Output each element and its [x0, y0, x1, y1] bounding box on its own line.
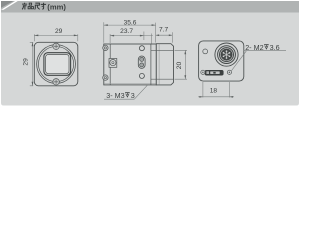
- dimension 18: arrow right (outside): [229, 96, 233, 98]
- M8 connector pins: [223, 50, 231, 59]
- dimension 29 top: arrows: [34, 35, 38, 37]
- dimension 20: arrows: [184, 50, 186, 54]
- slot screw lower: [140, 63, 144, 67]
- rear block chamfer edge top: [151, 49, 174, 51]
- back M2 screw right: [227, 70, 231, 74]
- side bottom M3 hole: [139, 73, 144, 78]
- side slot stadium: [138, 56, 145, 68]
- dimension 18: extension lines: [203, 82, 230, 98]
- dimension 29 top: extension lines: [34, 34, 78, 41]
- title text 产 (drawn): [22, 3, 27, 10]
- USB connector dark slot: [205, 70, 223, 75]
- dimension 29 left: extension lines: [30, 42, 33, 86]
- svg-text:3: 3: [131, 91, 135, 100]
- svg-text:20: 20: [176, 62, 183, 70]
- dimension 7.7: arrows: [156, 34, 160, 36]
- dimension 23.7: dim line: [110, 35, 153, 37]
- front top screw: [53, 43, 59, 49]
- svg-text:29: 29: [22, 58, 29, 66]
- title icon dark triangle: [1, 1, 14, 8]
- dimension 35.6: arrows: [104, 24, 108, 26]
- front plate bottom screw: [103, 75, 108, 80]
- sensor window outer rounded rect: [44, 53, 71, 76]
- dimension 7.7: extension line right: [171, 32, 173, 43]
- dimension 18: dim line: [198, 96, 234, 98]
- label 2- M2 depth 3.6: underline: [244, 50, 286, 52]
- dimension 23.7: arrows: [110, 35, 114, 37]
- dimension 20: extension lines: [175, 50, 188, 79]
- front plate joint line: [109, 44, 111, 85]
- back LED hole: [203, 49, 208, 54]
- svg-text:3- M3: 3- M3: [106, 91, 124, 100]
- title text 品 (drawn): [28, 3, 33, 9]
- svg-text:(mm): (mm): [47, 3, 66, 12]
- side top M3 hole: [139, 46, 144, 51]
- content panel background: [1, 13, 299, 106]
- rear block chamfer edge bottom: [151, 78, 174, 80]
- side boss center dot: [112, 62, 114, 64]
- front lens mount inner circle: [38, 46, 73, 81]
- dimension 29 left: dim line: [32, 42, 34, 86]
- label 2- M2 depth 3.6: depth symbol: [264, 45, 269, 49]
- svg-text:29: 29: [55, 28, 63, 35]
- label 3- M3 depth 3: leader diagonal: [134, 85, 147, 99]
- M8 connector pin spokes: [223, 51, 230, 59]
- body bottom inner lip line: [104, 82, 156, 84]
- rear block (back housing): [156, 44, 173, 85]
- page background: [0, 0, 300, 110]
- dimension 18: arrow left (outside): [199, 96, 203, 98]
- title icon white stripe: [1, 1, 18, 10]
- rear cap joint line: [150, 44, 152, 85]
- dimension 23.7: extension lines: [110, 32, 151, 44]
- label 2- M2 depth 3.6: leader diagonal: [231, 51, 247, 72]
- slot screw upper: [140, 57, 144, 61]
- front view outer square body 29x29: [34, 42, 78, 86]
- dimension 35.6: extension lines: [104, 22, 156, 43]
- dimension 7.7: dim line: [156, 34, 173, 36]
- M8 connector pin disc: [221, 49, 232, 60]
- label 3- M3 depth 3: underline: [104, 98, 134, 100]
- svg-text:23.7: 23.7: [120, 28, 133, 35]
- back plate rounded square: [199, 41, 244, 81]
- dimension 29 left: arrows: [32, 42, 34, 46]
- M8 connector ring 2: [218, 46, 236, 64]
- USB connector inner detail: [206, 71, 209, 74]
- svg-text:3.6: 3.6: [270, 43, 280, 52]
- title text 寸 (drawn): [41, 3, 46, 10]
- rear block inner joint line: [158, 44, 160, 85]
- dimension 35.6: dim line: [104, 24, 156, 26]
- label 3- M3 depth 3: depth symbol: [125, 93, 130, 97]
- side boss circle: [110, 60, 116, 66]
- front bottom screw: [53, 79, 59, 85]
- svg-text:18: 18: [210, 87, 218, 94]
- svg-text:7.7: 7.7: [159, 27, 168, 34]
- side body outline: [104, 44, 157, 85]
- back M2 screw left: [201, 70, 205, 74]
- front lens mount outer circle: [37, 45, 76, 84]
- side boss square: [109, 59, 117, 68]
- title text 尺 (drawn): [35, 3, 40, 9]
- svg-text:35.6: 35.6: [124, 19, 137, 26]
- M8 connector outer ring: [215, 43, 238, 66]
- dimension 29 top: dim line: [34, 34, 78, 36]
- sensor window inner rounded rect: [46, 54, 69, 73]
- front plate top screw: [103, 45, 108, 50]
- M8 connector ring 3: [220, 48, 234, 62]
- dimension 20: dim line: [184, 50, 186, 79]
- svg-text:2- M2: 2- M2: [245, 43, 263, 52]
- title bar: [1, 1, 299, 13]
